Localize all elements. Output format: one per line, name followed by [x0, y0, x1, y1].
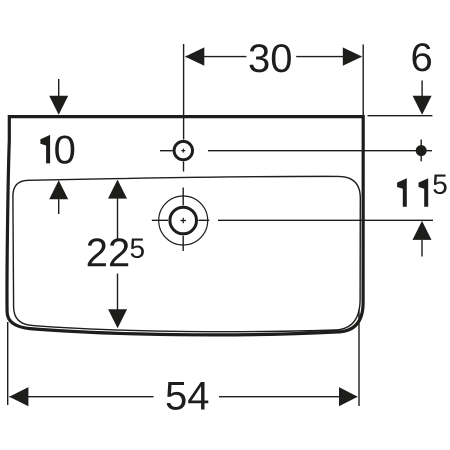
dim 54: extension line right: [358, 309, 360, 406]
faucet hole centerline vertical (30 dim extension): [183, 44, 185, 140]
dim 54: dimension line: [9, 396, 153, 398]
dim 6: arrow down: [421, 81, 423, 98]
drain center mark: [181, 220, 186, 222]
drain hole thin circle: [159, 196, 208, 245]
dim 11.5: label: [397, 178, 407, 207]
dim 10: label: [40, 135, 50, 164]
dim 54: right arrow: [339, 387, 358, 406]
top edge extension line right: [368, 115, 433, 117]
faucet hole center mark: [181, 150, 185, 152]
dim 30: dimension line: [186, 56, 247, 58]
washbasin inner outline: [13, 176, 360, 331]
washbasin outer outline: [7, 117, 363, 335]
dim 30: left arrow: [185, 47, 204, 65]
dim 11.5: arrow up: [413, 221, 432, 240]
faucet hole centerline horizontal: [160, 150, 173, 152]
dim 54: extension line left: [7, 322, 9, 405]
drain hole thick circle: [170, 207, 197, 234]
dim 30: right arrow: [343, 47, 362, 65]
dim 54: left arrow: [9, 387, 28, 406]
faucet ref dot: [420, 140, 422, 162]
dim 22.5: arrow down (to bottom): [117, 274, 119, 311]
dim 10: arrow down (above top edge): [58, 79, 60, 96]
faucet hole: [174, 141, 192, 159]
dim 30: label: [250, 44, 291, 72]
dim 22.5: arrow up (below inner line): [108, 180, 127, 199]
dim 54: label: [167, 382, 209, 410]
drain centerline horizontal: [152, 219, 168, 221]
drain centerline vertical: [182, 188, 184, 206]
dim 22.5: label: [88, 238, 129, 266]
dim 10: arrow up (below inner line): [49, 180, 68, 199]
dim 30: extension line right: [362, 45, 364, 116]
dim 6: label: [413, 43, 432, 71]
